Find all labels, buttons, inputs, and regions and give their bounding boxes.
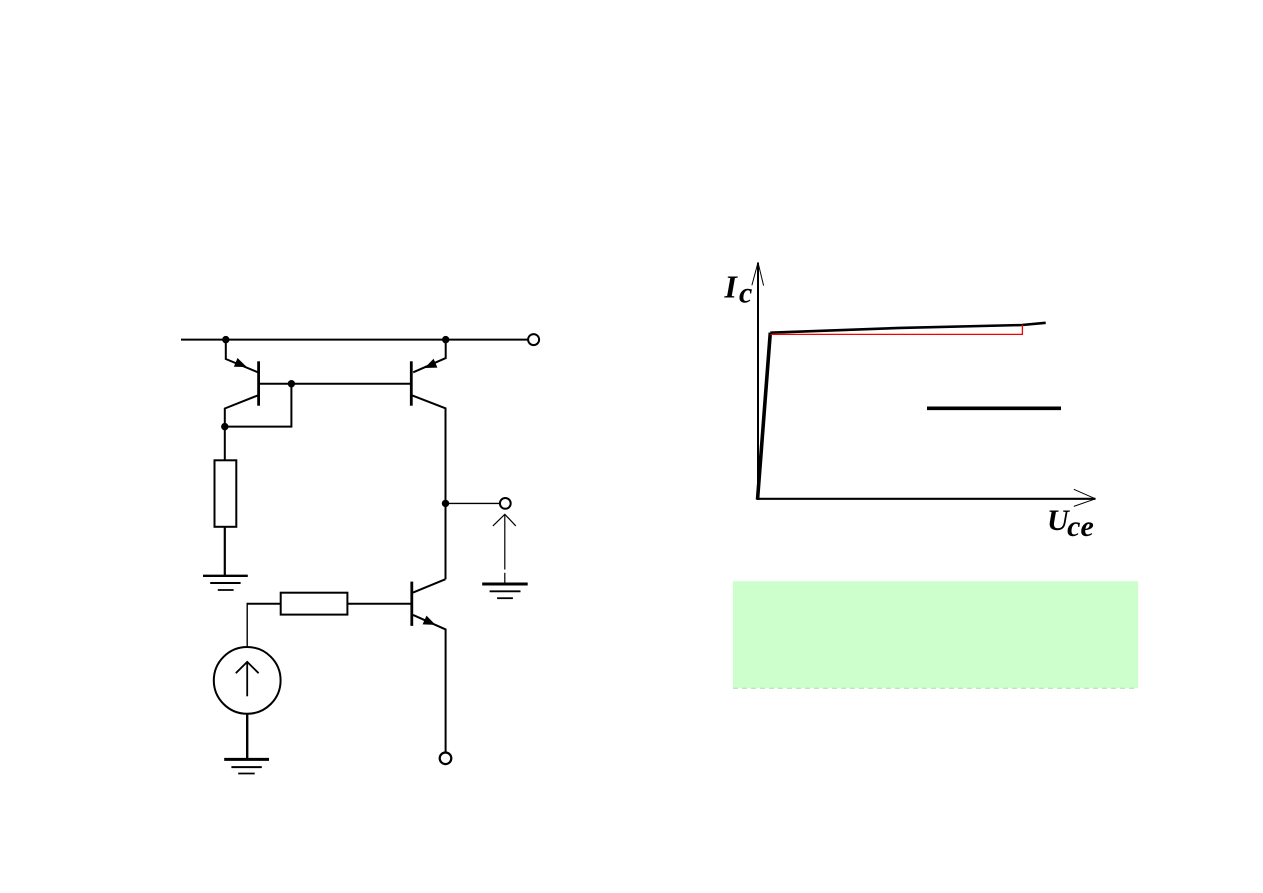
transistor Q1 emitter arrow <box>234 358 247 367</box>
wire top supply rail <box>181 339 528 341</box>
node collector junction dot <box>221 423 228 430</box>
green highlight rectangle <box>733 581 1138 688</box>
wire corner down to I1 <box>246 603 248 647</box>
current source I1 arrow <box>236 662 259 696</box>
current source I1 <box>214 647 281 714</box>
wire base net Q1-Q2 <box>259 383 412 385</box>
node A junction dot left <box>222 336 229 343</box>
transistor Q3 base bar <box>410 582 413 626</box>
wire I1 to R2 <box>247 603 281 605</box>
ground G1 <box>203 576 248 590</box>
transistor Q3 collector <box>413 579 446 592</box>
wire R1 to ground <box>224 527 226 576</box>
transistor Q2 collector <box>412 395 445 579</box>
ground reference arrow <box>493 514 516 584</box>
transistor Q1 emitter wire <box>226 340 258 373</box>
curve black flat segment <box>770 323 1045 333</box>
resistor R2 <box>281 593 348 615</box>
transistor Q1 collector <box>225 395 258 460</box>
transistor Q3 emitter <box>413 615 446 753</box>
wire output to terminal <box>446 502 501 504</box>
node output junction dot <box>442 500 449 507</box>
curve red ideal segment <box>771 325 1023 335</box>
wire R2 to Q3 base <box>347 603 411 605</box>
curve black steep segment <box>758 333 771 500</box>
graph x-axis <box>757 498 1096 500</box>
graph y-axis <box>757 263 759 500</box>
graph y-axis arrowhead <box>752 263 764 286</box>
wire I1 to ground <box>246 714 248 759</box>
node B junction dot right <box>442 336 449 343</box>
green rectangle bottom dashed edge <box>733 687 1138 689</box>
transistor Q3 emitter arrow <box>423 616 436 625</box>
transistor Q1 base bar <box>257 361 260 405</box>
ground G3 <box>482 584 528 598</box>
terminal output open circle <box>500 498 511 509</box>
ground G2 <box>224 759 269 773</box>
graph x-axis arrowhead <box>1074 489 1096 506</box>
transistor Q2 emitter wire <box>413 340 446 373</box>
transistor Q2 base bar <box>410 361 413 405</box>
resistor R1 <box>215 460 237 527</box>
transistor Q2 emitter arrow <box>425 359 438 368</box>
wire diode connection <box>225 384 292 427</box>
node base junction dot <box>288 380 295 387</box>
terminal V+ open circle <box>528 334 539 345</box>
terminal emitter open circle <box>440 753 452 765</box>
thick marker line <box>927 406 1061 410</box>
